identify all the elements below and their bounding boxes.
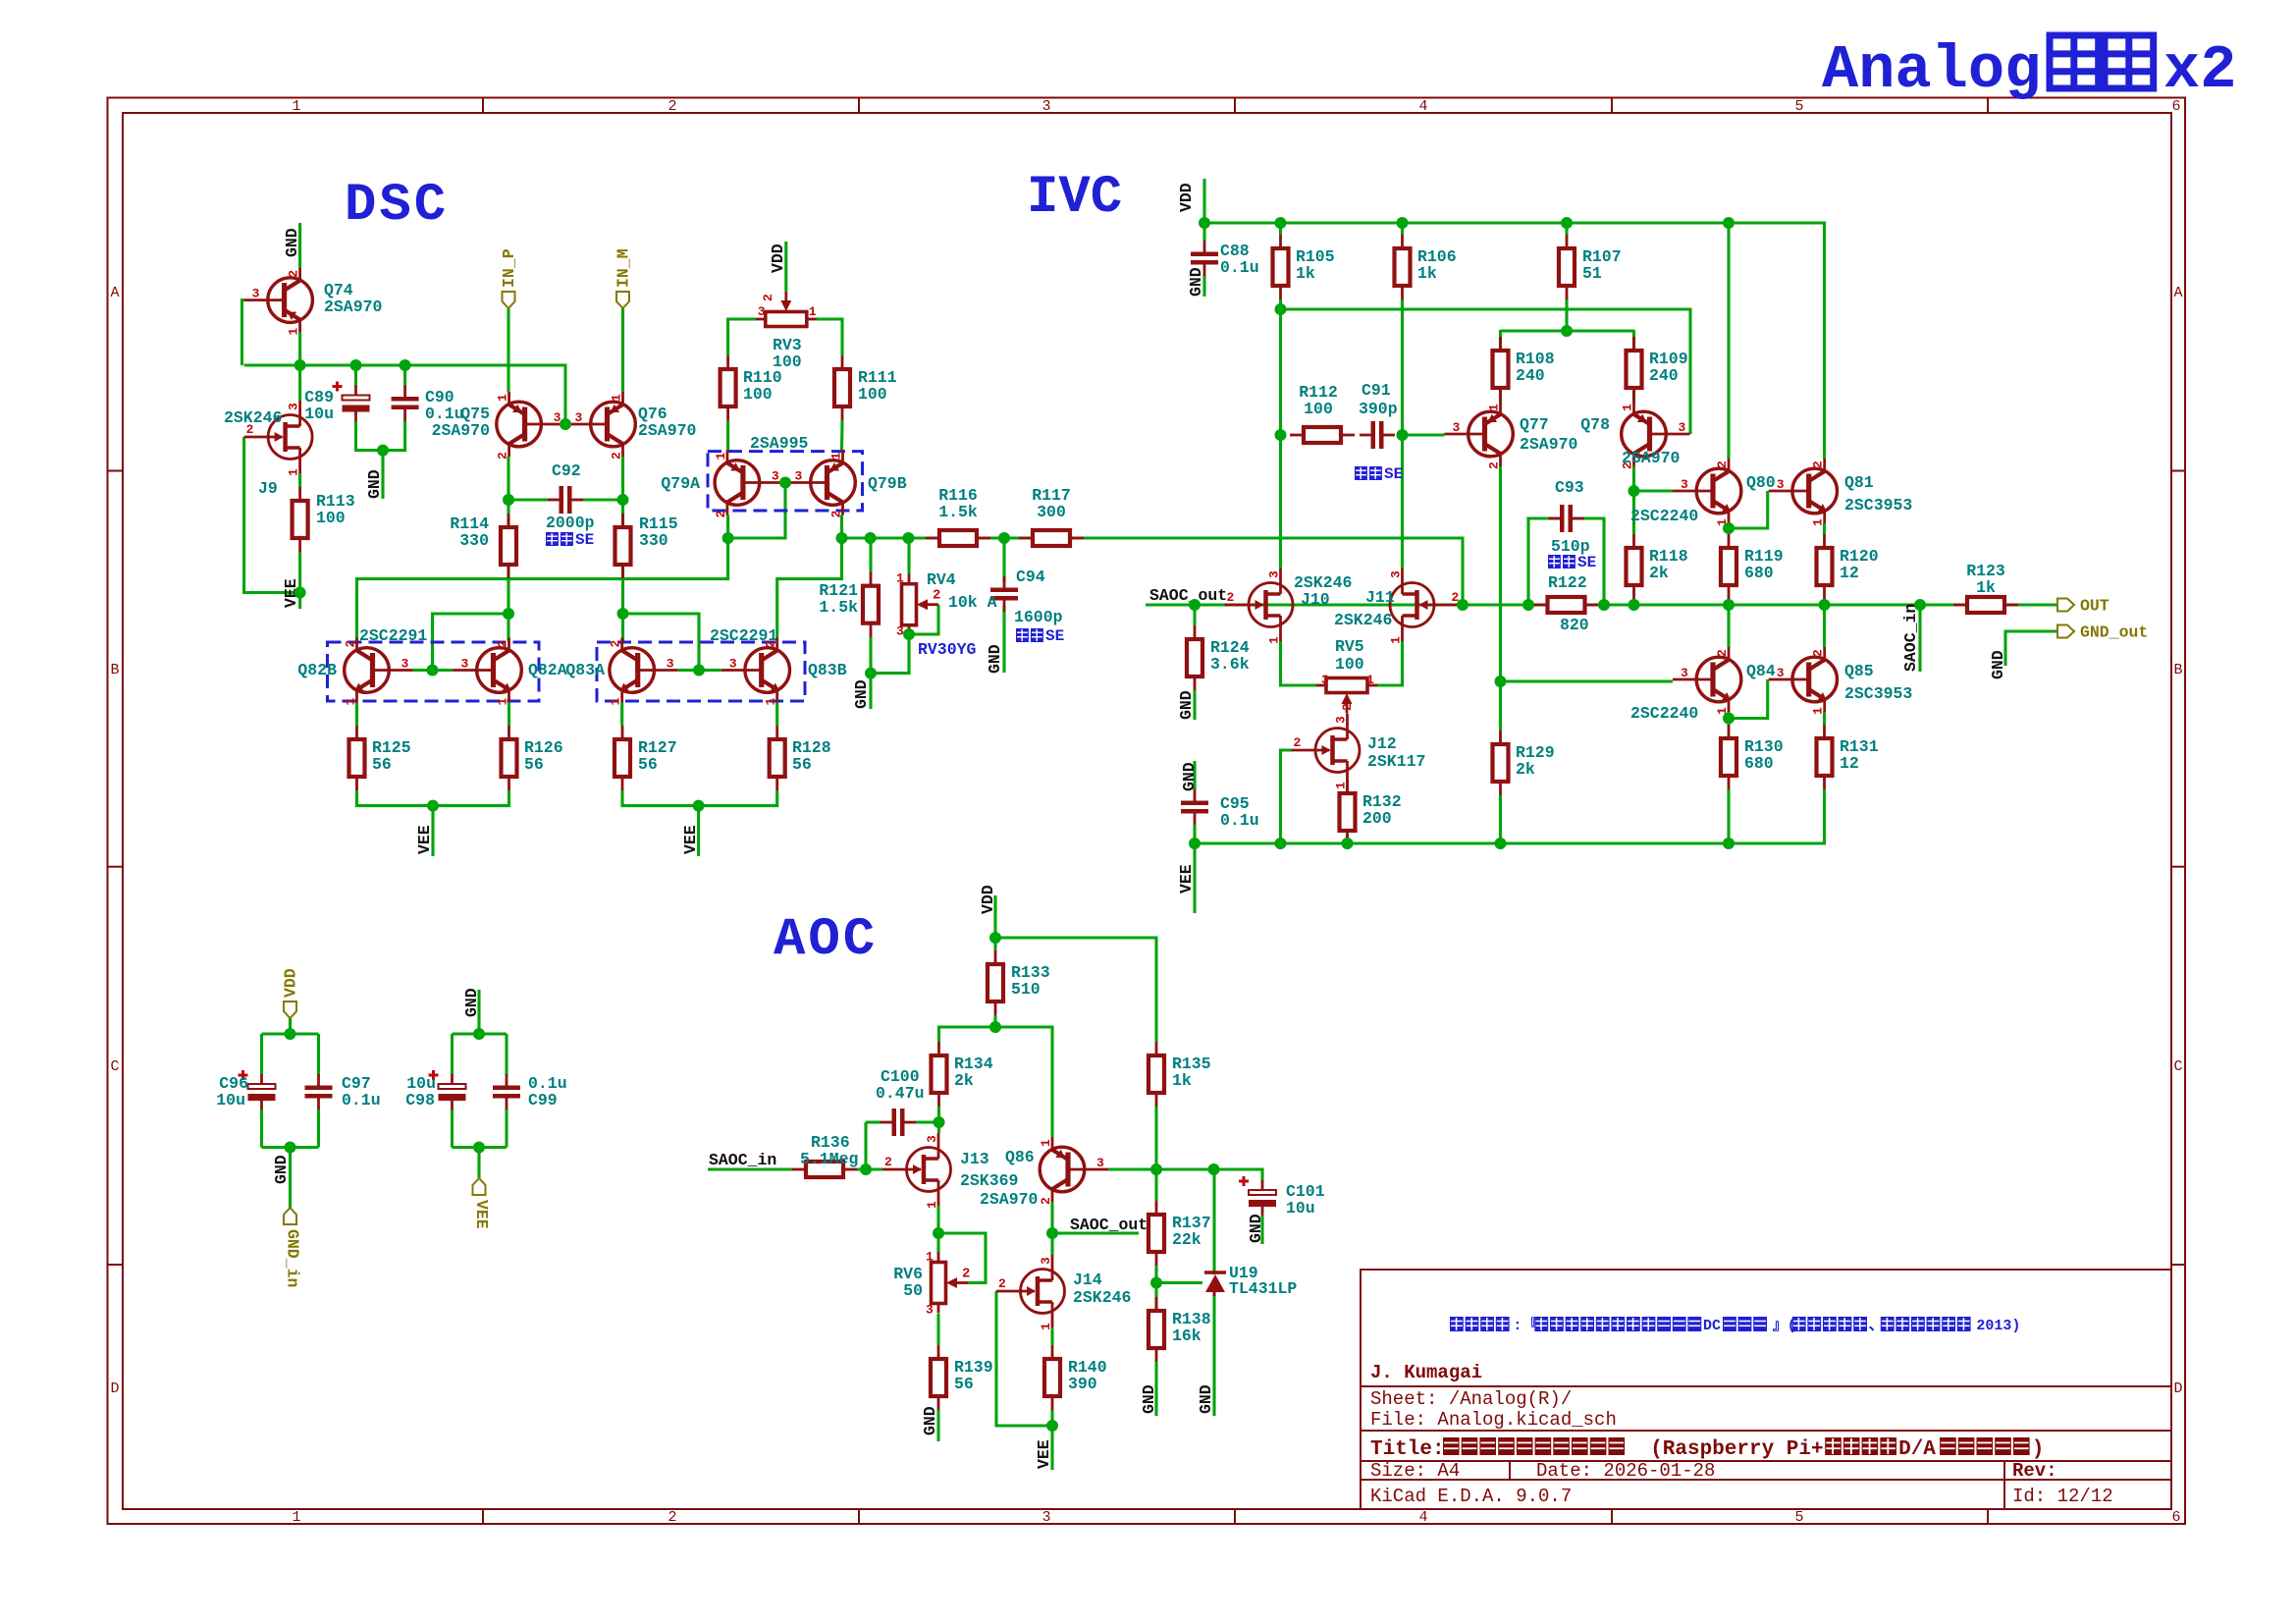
pin numbers Q79A (714, 453, 779, 518)
wire node to C101 (1156, 1169, 1262, 1181)
svg-text:2: 2 (1715, 649, 1730, 657)
label J9 2SK246 (224, 408, 282, 498)
label Q77 2SA970 (1520, 415, 1577, 454)
label RV4 10k A (927, 570, 997, 612)
capacitor C90 (392, 386, 419, 421)
svg-text:100: 100 (1304, 400, 1333, 418)
wire Q74 base to bus (242, 300, 244, 365)
svg-text:Date: 2026-01-28: Date: 2026-01-28 (1536, 1460, 1715, 1482)
wire Q76 collector through R115 to Q83A (621, 457, 624, 641)
wire to C92 left (508, 498, 548, 501)
svg-text:SE: SE (1384, 465, 1403, 483)
label C93 510p (1551, 478, 1590, 556)
wire Q79B collector to rail (840, 515, 843, 539)
svg-text:3: 3 (925, 1135, 939, 1143)
pin numbers RV4 (896, 571, 940, 639)
capacitor C94 (990, 576, 1018, 612)
junction (1275, 838, 1287, 849)
wire C98 C99 bottom rail (453, 1146, 507, 1149)
svg-text:VEE: VEE (1177, 864, 1196, 893)
resistor R120 (1817, 534, 1833, 599)
resistor R132 (1340, 780, 1356, 844)
svg-text:0.1u: 0.1u (1220, 811, 1259, 830)
svg-text:3: 3 (1096, 1156, 1104, 1170)
title block reference note (blue) (1450, 1316, 2020, 1334)
pin numbers Q76 (575, 394, 624, 460)
svg-text:1: 1 (1267, 636, 1282, 644)
svg-text:1: 1 (292, 98, 300, 115)
svg-text:VEE: VEE (681, 825, 700, 854)
svg-text:200: 200 (1362, 809, 1392, 828)
svg-text:VDD: VDD (1177, 183, 1196, 212)
wire J10 source to RV5 (1281, 641, 1318, 685)
resistor R130 (1721, 725, 1736, 789)
svg-text:2: 2 (496, 452, 510, 460)
svg-text:1: 1 (610, 394, 624, 402)
label soushin SE blue (1016, 627, 1064, 645)
wire Q80 emitter to Q81 base (1729, 491, 1768, 528)
junction (1561, 325, 1573, 337)
svg-text:2SA970: 2SA970 (324, 298, 382, 316)
resistor R107 (1559, 235, 1575, 299)
svg-text:3: 3 (758, 304, 766, 319)
svg-text:J14: J14 (1073, 1271, 1102, 1289)
svg-text:10u: 10u (304, 405, 334, 423)
svg-text:100: 100 (1335, 655, 1364, 674)
wire to C100 (866, 1120, 881, 1123)
junction (933, 1227, 944, 1239)
wire J13 source down (936, 1206, 939, 1233)
title block title line (1370, 1437, 2044, 1461)
junction (989, 932, 1001, 944)
wire R124 to GND stub (1193, 690, 1196, 720)
svg-text:GND: GND (1989, 650, 2007, 679)
wire Q78 collector to R118 (1632, 466, 1635, 534)
pin numbers Q82A (461, 640, 510, 706)
svg-text:GND: GND (272, 1155, 291, 1184)
frame row letters (110, 285, 2182, 1397)
label Q78 2SA970 (1580, 415, 1680, 467)
wire C88 to GND (1202, 276, 1205, 297)
svg-text:3: 3 (401, 657, 409, 672)
svg-text:Q83B: Q83B (808, 661, 847, 679)
svg-text:10u: 10u (1286, 1199, 1315, 1218)
junction (377, 445, 389, 457)
wire R136 to J13 gate (857, 1167, 882, 1170)
junction (400, 359, 411, 371)
wire R120 to rail (1823, 599, 1826, 605)
wire R118 to rail (1632, 599, 1635, 605)
resistor R127 (614, 726, 630, 790)
wire Q83A emitter to R127 (620, 703, 623, 727)
svg-text:RV5: RV5 (1335, 637, 1364, 656)
svg-text:C94: C94 (1016, 568, 1045, 586)
GND label (1177, 690, 1196, 720)
svg-text:1: 1 (1366, 673, 1374, 687)
svg-text:Sheet: /Analog(R)/: Sheet: /Analog(R)/ (1370, 1388, 1572, 1410)
wire J12 source to R132 (1346, 786, 1349, 791)
svg-text:VEE: VEE (415, 825, 434, 854)
svg-text:GND: GND (986, 644, 1004, 674)
svg-text:56: 56 (372, 755, 392, 774)
svg-text:C93: C93 (1555, 478, 1584, 497)
svg-text:GND: GND (1247, 1214, 1265, 1243)
wire IN_P to Q75 emitter (507, 308, 509, 392)
VDD label (1177, 183, 1196, 212)
svg-text:1.5k: 1.5k (819, 598, 858, 617)
transistor Q82B (345, 638, 413, 703)
junction (934, 1116, 945, 1128)
svg-text:1: 1 (496, 394, 510, 402)
svg-text:1k: 1k (1296, 264, 1315, 283)
junction (1208, 1164, 1220, 1175)
svg-text:GND: GND (852, 679, 871, 709)
title block author (1370, 1362, 1482, 1383)
svg-text:2: 2 (609, 640, 623, 648)
svg-text:16k: 16k (1172, 1326, 1201, 1345)
wire to Q84 base (1501, 679, 1674, 682)
svg-text:J12: J12 (1367, 734, 1397, 753)
junction (1275, 303, 1287, 315)
label C98 10u (405, 1074, 436, 1110)
matched pair box 2SC2291 (Q83) (597, 642, 805, 701)
wire rail to Q83B collector (777, 538, 842, 638)
svg-text:2: 2 (829, 511, 844, 518)
GND label (272, 1155, 291, 1184)
svg-text:240: 240 (1516, 366, 1545, 385)
junction (1046, 1227, 1058, 1239)
wire RV4 wiper (909, 605, 938, 634)
svg-text:1k: 1k (1417, 264, 1437, 283)
JFET J13 (882, 1133, 951, 1206)
svg-text:1: 1 (1039, 1323, 1053, 1330)
wire Q82A emitter to R126 (507, 703, 510, 727)
wire Q84 emitter to R130 (1727, 712, 1730, 725)
svg-text:3: 3 (1321, 673, 1329, 687)
wire C98 C99 top rail (453, 1032, 507, 1035)
svg-text:56: 56 (792, 755, 812, 774)
wire VDD to C88 (1202, 223, 1205, 241)
label J11 2SK246 (1334, 588, 1395, 629)
svg-text:510: 510 (1011, 980, 1041, 999)
svg-text:680: 680 (1744, 564, 1774, 582)
svg-text:1: 1 (1389, 636, 1404, 644)
svg-text:300: 300 (1037, 503, 1066, 521)
svg-text:IN_P: IN_P (500, 248, 518, 288)
wire to C97 (317, 1034, 320, 1075)
wire node to U19 ref (1156, 1281, 1202, 1284)
svg-text:3: 3 (1777, 477, 1785, 492)
svg-text:R122: R122 (1548, 573, 1587, 592)
svg-text:2: 2 (962, 1267, 970, 1282)
svg-text:2SA970: 2SA970 (1622, 449, 1680, 467)
junction (722, 532, 734, 544)
junction (1629, 485, 1640, 497)
svg-text:3: 3 (1334, 716, 1349, 724)
wire R109 to Q78 emitter (1632, 330, 1635, 402)
svg-text:SAOC_in: SAOC_in (709, 1151, 776, 1169)
svg-text:SE: SE (1577, 554, 1596, 571)
svg-text:2: 2 (1811, 460, 1826, 468)
svg-text:VDD: VDD (769, 244, 787, 273)
label C100 0.47u (876, 1067, 925, 1103)
svg-text:Q86: Q86 (1005, 1148, 1035, 1166)
svg-text:3: 3 (1039, 1257, 1053, 1265)
wire GND to C95 (1193, 761, 1196, 789)
svg-text:GND: GND (1180, 762, 1199, 791)
wire J13 gate up to C100 (864, 1122, 867, 1169)
svg-text:Q77: Q77 (1520, 415, 1549, 434)
wire VEE stub pair1 (431, 806, 434, 856)
wire R123 to OUT (2018, 603, 2057, 606)
wire GND stub (869, 674, 872, 709)
wire R110 to Q79A emitter (726, 420, 729, 451)
wire J13 source to RV6 wiper (938, 1233, 986, 1283)
svg-text:0.47u: 0.47u (876, 1084, 925, 1103)
svg-text:GND: GND (462, 988, 481, 1017)
svg-text:2SA970: 2SA970 (1520, 435, 1577, 454)
matched pair box 2SC2291 (Q82) (328, 642, 540, 701)
svg-text:GND: GND (1140, 1384, 1158, 1414)
resistor R134 (932, 1042, 947, 1107)
resistor R128 (770, 726, 785, 790)
wire main rail R116 R117 to IVC (842, 538, 1464, 605)
wire to C98 (451, 1034, 454, 1075)
resistor R119 (1721, 534, 1736, 599)
svg-text:C98: C98 (405, 1091, 435, 1110)
label J13 2SK369 (960, 1150, 1018, 1190)
svg-text:x2: x2 (2163, 35, 2236, 105)
label Q85 2SC3953 (1844, 662, 1912, 703)
pin numbers RV3 (758, 294, 817, 319)
wire Q86 collector to J14 drain (1050, 1202, 1053, 1255)
junction (1723, 599, 1735, 611)
wire J14 gate to VEE node (996, 1291, 1052, 1426)
capacitor C93 (1549, 505, 1584, 532)
transistor Q79B (787, 451, 856, 515)
svg-text:2k: 2k (1516, 760, 1535, 779)
label soushin SE blue (546, 531, 594, 549)
svg-text:390: 390 (1068, 1375, 1097, 1393)
resistor R138 (1148, 1297, 1164, 1362)
wire to U19 cathode (1212, 1169, 1215, 1271)
wire R108 to Q77 emitter (1499, 330, 1502, 402)
resistor R129 (1493, 731, 1509, 795)
svg-text:5: 5 (1794, 98, 1803, 115)
svg-text:C: C (110, 1058, 119, 1075)
label Q81 2SC3953 (1844, 473, 1912, 514)
svg-text:GND: GND (1177, 690, 1196, 720)
frame column numbers (292, 98, 2180, 1526)
pin numbers Q80 (1681, 460, 1730, 526)
resistor R137 (1148, 1201, 1164, 1266)
junction (294, 359, 306, 371)
wire IVC VEE rail (1195, 789, 1825, 843)
svg-text:100: 100 (316, 509, 346, 527)
wire Q79A collector to rail (726, 515, 729, 539)
capacitor C98 (429, 1070, 466, 1110)
transistor Q86 (1040, 1137, 1108, 1202)
transistor Q79A (715, 451, 783, 515)
pin numbers Q81 (1777, 460, 1826, 526)
wire VDD to R135 (995, 938, 1156, 1042)
wire J9 gate to VEE node (244, 437, 300, 593)
transistor Q81 (1769, 459, 1838, 523)
junction (693, 665, 705, 677)
resistor R111 (834, 355, 850, 420)
junction (865, 668, 877, 679)
junction (1561, 217, 1573, 229)
svg-text:12: 12 (1840, 564, 1859, 582)
GND label (986, 644, 1004, 674)
svg-text:J10: J10 (1301, 590, 1330, 609)
svg-text:GND: GND (1187, 267, 1205, 297)
wire to Q77 base (1403, 433, 1445, 436)
svg-text:2SK246: 2SK246 (1073, 1288, 1131, 1307)
svg-text:56: 56 (638, 755, 658, 774)
wire VEE stub (298, 593, 301, 610)
label C96 10u (216, 1074, 248, 1110)
resistor R139 (931, 1345, 946, 1410)
svg-text:GND: GND (1197, 1384, 1215, 1414)
junction (903, 628, 915, 640)
svg-text:2: 2 (933, 588, 940, 604)
wire VDD rail (1204, 223, 1825, 459)
capacitor C89 (333, 382, 370, 421)
pin numbers J11 (1389, 570, 1460, 644)
svg-text:1: 1 (714, 453, 728, 460)
wire SAOC_in to R136 (708, 1167, 792, 1170)
label J10 2SK246 (1294, 573, 1352, 609)
wire R113 to VEE node (298, 552, 301, 593)
wire R139 to GND stub (936, 1410, 939, 1441)
svg-text:3: 3 (667, 657, 674, 672)
transistor Q80 (1673, 459, 1741, 523)
sheet title Analog Kairo x2 (1822, 35, 2236, 105)
wire C93 right loop (1573, 518, 1604, 605)
wire VDD stub (1202, 179, 1205, 223)
svg-text:2SC3953: 2SC3953 (1844, 684, 1912, 703)
wire J14 source to R140 (1050, 1327, 1053, 1345)
wire R140 to VEE node (1050, 1410, 1053, 1426)
title block sheet line (1370, 1388, 1572, 1410)
svg-text:1: 1 (829, 453, 844, 460)
svg-text:2k: 2k (1649, 564, 1669, 582)
svg-text:680: 680 (1744, 754, 1774, 773)
resistor R117 (1019, 530, 1084, 546)
junction (1598, 599, 1610, 611)
svg-text:2: 2 (667, 98, 676, 115)
wire second rail to Q78 base (1281, 309, 1691, 434)
wire Q74 emitter to J9 drain (298, 333, 301, 401)
VEE label (282, 578, 300, 608)
JFET J11 (1390, 568, 1459, 641)
wire C96 C97 bottom rail (262, 1146, 319, 1149)
wire node to R138 (1154, 1283, 1157, 1317)
svg-text:2SK246: 2SK246 (1334, 611, 1392, 629)
resistor R133 (988, 950, 1003, 1015)
svg-text:3: 3 (252, 287, 260, 301)
wire R106 J11 drain column (1401, 299, 1404, 568)
JFET J14 (996, 1255, 1065, 1327)
junction (693, 800, 705, 812)
label 2SC2291 (359, 626, 427, 645)
svg-text:D: D (2173, 1380, 2182, 1397)
junction (1495, 676, 1507, 687)
junction (1914, 599, 1926, 611)
GND label (1247, 1214, 1265, 1243)
wire Q81 emitter to R120 (1823, 523, 1826, 534)
wire Q75 collector through R114 to Q82A (507, 457, 509, 641)
wire to Q86 emitter (995, 1027, 1052, 1137)
pin numbers Q83A (609, 640, 674, 706)
svg-text:3: 3 (1389, 570, 1404, 578)
svg-text:3: 3 (1041, 1509, 1050, 1526)
junction (1397, 429, 1409, 441)
svg-text:2: 2 (761, 294, 775, 301)
potentiometer RV4 (902, 574, 939, 635)
wire SAOC_out label (1052, 1231, 1139, 1234)
capacitor C96 (239, 1070, 276, 1110)
junction (1629, 599, 1640, 611)
svg-text:Q81: Q81 (1844, 473, 1874, 492)
svg-text:2: 2 (998, 1276, 1006, 1291)
pin numbers J9 (246, 403, 301, 476)
wire Q77 collector to R129 (1499, 466, 1502, 731)
hierarchical label OUT (2057, 597, 2109, 616)
svg-text:4: 4 (1418, 1509, 1427, 1526)
svg-text:56: 56 (524, 755, 544, 774)
GND label (365, 469, 384, 499)
label J14 2SK246 (1073, 1271, 1131, 1307)
svg-text:3: 3 (287, 403, 301, 410)
pin numbers Q85 (1777, 649, 1826, 715)
pin numbers J12 (1294, 716, 1349, 789)
junction (617, 494, 629, 506)
svg-text:3: 3 (575, 410, 583, 425)
GND label (462, 988, 481, 1017)
wire C98 down (451, 1109, 454, 1148)
svg-text:2: 2 (714, 511, 728, 518)
svg-text:SE: SE (1045, 627, 1064, 645)
svg-text:Rev:: Rev: (2012, 1460, 2057, 1482)
transistor Q77 (1445, 402, 1514, 466)
wire J9 source to R113 (298, 473, 301, 487)
wire Q80 emitter to R119 (1727, 523, 1730, 534)
wire R132 to VEE rail (1346, 835, 1349, 843)
section title AOC (774, 910, 878, 970)
svg-text:RV4: RV4 (927, 570, 956, 589)
hierarchical label GND_in (284, 1208, 302, 1287)
wire Q80 collector to VDD rail (1727, 223, 1730, 459)
resistor R123 (1953, 597, 2018, 613)
svg-text:2: 2 (1227, 590, 1235, 605)
svg-text:3: 3 (1679, 420, 1686, 435)
label RV30YG blue (918, 640, 977, 659)
hierarchical label IN_P (500, 248, 518, 308)
svg-text:3: 3 (926, 1303, 934, 1318)
potentiometer RV6 (932, 1253, 969, 1314)
svg-text:12: 12 (1840, 754, 1859, 773)
capacitor C101 (1239, 1176, 1276, 1216)
svg-text:IN_M: IN_M (614, 248, 633, 288)
svg-text:3: 3 (1267, 570, 1282, 578)
junction (427, 800, 439, 812)
svg-text:SAOC_out: SAOC_out (1149, 586, 1227, 605)
wire rail to R106 (1401, 223, 1404, 235)
wire Q82 base tap (433, 614, 509, 671)
svg-text:AOC: AOC (774, 910, 878, 970)
